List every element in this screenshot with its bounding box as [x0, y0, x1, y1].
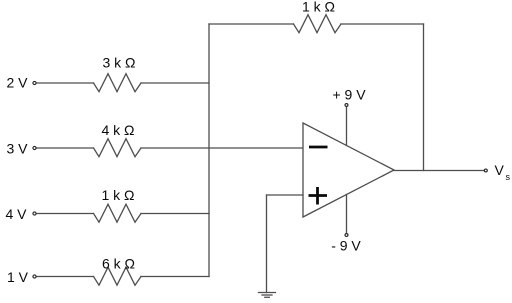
svg-text:1 V: 1 V: [7, 269, 29, 285]
svg-text:2 V: 2 V: [7, 75, 29, 91]
svg-text:1 k Ω: 1 k Ω: [302, 0, 335, 15]
svg-text:4 k Ω: 4 k Ω: [101, 122, 134, 138]
svg-text:6 k Ω: 6 k Ω: [102, 256, 135, 272]
svg-text:V: V: [495, 162, 505, 178]
svg-text:3 V: 3 V: [7, 141, 29, 157]
svg-text:s: s: [506, 172, 511, 182]
svg-text:1 k Ω: 1 k Ω: [101, 187, 134, 203]
svg-text:3 k Ω: 3 k Ω: [102, 55, 135, 71]
svg-text:- 9 V: - 9 V: [331, 238, 361, 254]
svg-text:4 V: 4 V: [6, 206, 28, 222]
svg-text:+ 9 V: + 9 V: [332, 87, 366, 103]
